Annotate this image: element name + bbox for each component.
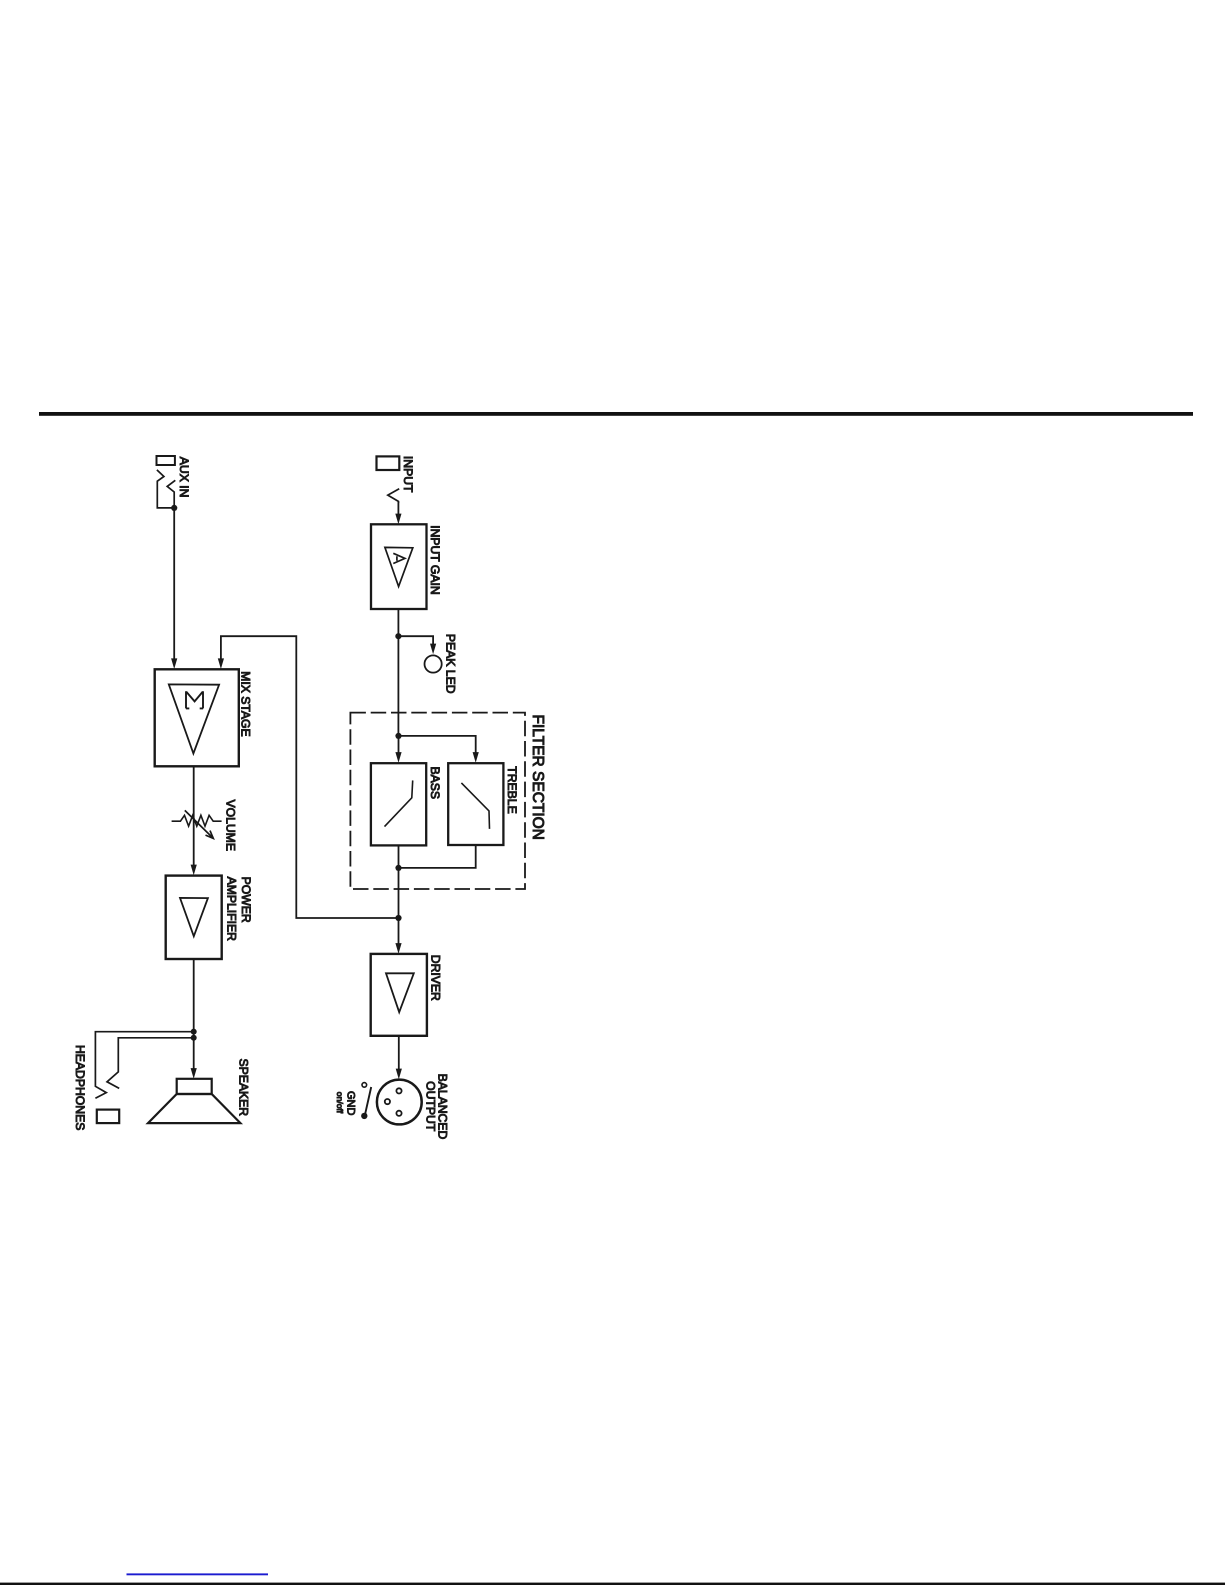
wire peak led branch xyxy=(398,636,433,644)
junction node filter split xyxy=(395,733,401,739)
block F2 TREBLE filter xyxy=(448,763,503,845)
U2 mixer triangle xyxy=(169,684,219,753)
J1 tip contact xyxy=(157,470,173,508)
junction node driver tap xyxy=(395,915,401,921)
block U4 DRIVER xyxy=(371,954,427,1036)
svg-text:VOLUME: VOLUME xyxy=(224,800,238,851)
svg-text:on/off: on/off xyxy=(335,1092,345,1114)
junction node aux xyxy=(171,505,177,511)
SW1 pole xyxy=(361,1113,367,1119)
connector J2 INPUT jack body xyxy=(377,456,400,470)
filter section dashed boundary xyxy=(350,713,525,889)
wire to driver xyxy=(398,918,400,944)
wire bass out xyxy=(398,845,400,918)
U1 letter A (rotated) xyxy=(393,553,405,563)
junction node headphone tap A xyxy=(191,1029,197,1035)
wire headphone sleeve branch xyxy=(95,1032,193,1099)
U3 amplifier triangle xyxy=(180,898,208,936)
svg-text:AUX IN: AUX IN xyxy=(177,457,191,498)
wire split to treble xyxy=(399,736,476,753)
U4 amplifier triangle xyxy=(386,973,414,1012)
speaker LS1 cone xyxy=(148,1094,240,1123)
indicator D1 PEAK LED xyxy=(425,655,442,672)
block U1 INPUT GAIN xyxy=(371,524,427,609)
svg-text:DRIVER: DRIVER xyxy=(428,955,442,1001)
block U3 POWER AMPLIFIER xyxy=(166,876,222,959)
J1 ring contact xyxy=(167,480,175,508)
wire feedback loop to mix stage xyxy=(221,636,399,918)
svg-text:OUTPUT: OUTPUT xyxy=(424,1081,438,1132)
speaker LS1 magnet xyxy=(177,1079,212,1094)
junction node peak branch xyxy=(395,633,401,639)
svg-text:SPEAKER: SPEAKER xyxy=(237,1059,251,1117)
VR1 wiper arrow xyxy=(185,810,214,838)
connector J3 HEADPHONES jack body xyxy=(97,1110,119,1124)
svg-text:MIX STAGE: MIX STAGE xyxy=(239,671,253,736)
wire treble out xyxy=(399,845,476,868)
J4 pin 2 xyxy=(396,1088,401,1093)
wire to speaker xyxy=(193,1038,195,1069)
wire power amp out xyxy=(193,959,195,1038)
junction node headphone tap B xyxy=(191,1035,197,1041)
svg-text:HEADPHONES: HEADPHONES xyxy=(73,1045,87,1130)
wire aux to mix stage xyxy=(173,508,175,659)
junction node filter sum xyxy=(395,865,401,871)
svg-text:INPUT: INPUT xyxy=(401,456,415,493)
J4 pin 3 xyxy=(396,1111,401,1116)
potentiometer VR1 VOLUME xyxy=(172,815,222,826)
footer hyperlink underline xyxy=(127,1573,269,1575)
top rule xyxy=(39,412,1193,416)
switch SW1 ground lift terminal xyxy=(362,1083,367,1088)
U1 amplifier triangle xyxy=(385,547,413,586)
wire mix out xyxy=(193,767,195,866)
svg-text:BASS: BASS xyxy=(428,767,442,800)
J4 pin 1 xyxy=(385,1099,390,1104)
SW1 lever xyxy=(365,1087,371,1115)
svg-text:TREBLE: TREBLE xyxy=(505,766,519,813)
svg-text:PEAK LED: PEAK LED xyxy=(444,634,458,694)
wire input to gain xyxy=(397,501,399,514)
connector J4 XLR balanced output xyxy=(377,1080,422,1125)
footer page border xyxy=(0,1583,1225,1585)
F2 response curve xyxy=(461,783,489,829)
F1 response curve xyxy=(385,780,413,826)
block U2 MIX STAGE xyxy=(155,669,239,766)
wire split to bass xyxy=(398,736,400,753)
svg-text:FILTER SECTION: FILTER SECTION xyxy=(529,715,546,840)
wire headphone tip branch xyxy=(107,1038,194,1089)
wire driver out xyxy=(398,1036,400,1069)
J2 tip contact xyxy=(388,489,399,503)
wire gain out xyxy=(397,609,399,736)
connector J1 AUX IN jack body xyxy=(157,456,175,465)
svg-text:POWER: POWER xyxy=(239,877,253,923)
svg-text:AMPLIFIER: AMPLIFIER xyxy=(225,877,239,942)
block F1 BASS filter xyxy=(371,763,426,845)
U2 letter M xyxy=(186,691,203,708)
svg-text:INPUT GAIN: INPUT GAIN xyxy=(428,525,442,595)
